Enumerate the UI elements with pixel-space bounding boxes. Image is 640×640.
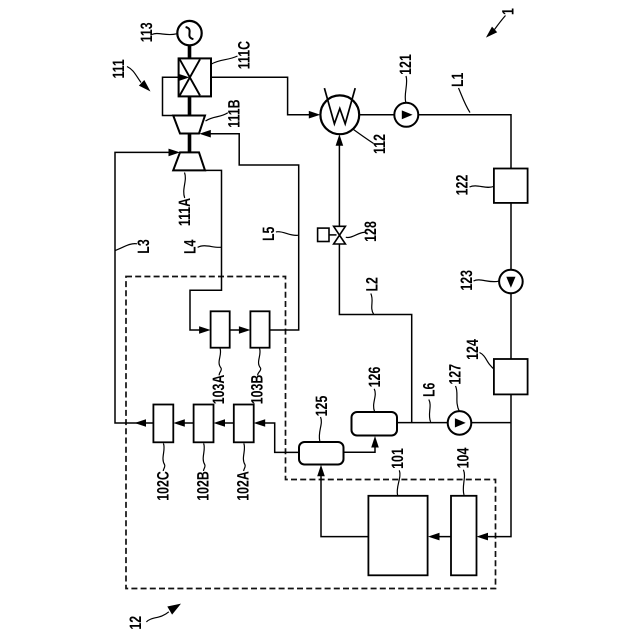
wire L1: 112 through pump 121 down right rail to 104 (359, 115, 511, 537)
turbine 111C (179, 58, 211, 96)
svg-text:102B: 102B (195, 471, 213, 501)
wire L4: 111A out down to 103A (190, 170, 222, 330)
wire L2: valve 128 down and over to L6 (339, 244, 411, 423)
box 104 (451, 496, 477, 576)
pump 127 (448, 411, 472, 435)
wire 102A to 102B (218, 422, 234, 424)
wire 104 to 101 (432, 536, 451, 538)
svg-text:102A: 102A (235, 471, 253, 501)
box 122 (494, 169, 528, 203)
box 103A (211, 311, 230, 347)
svg-text:103B: 103B (249, 375, 267, 405)
wire shaft 111B to 111A (188, 133, 192, 153)
box 102B (194, 405, 214, 443)
svg-text:L6: L6 (420, 383, 438, 397)
arrow into 111B (199, 130, 211, 138)
wire L3: 102C out, left and up to 111A (115, 152, 176, 423)
box 103B (250, 311, 269, 347)
valve 128 (334, 226, 346, 235)
wire 111B top to 111C inlet (163, 77, 187, 115)
wire shaft 111C to 111B (188, 96, 192, 116)
compressor 111B (173, 116, 205, 134)
svg-text:101: 101 (389, 448, 407, 469)
wire 125 to 102A (258, 423, 299, 452)
svg-text:125: 125 (313, 396, 331, 417)
wire 111C outlet to 112 (211, 77, 310, 114)
tank 125 (299, 442, 344, 465)
generator 113 (177, 21, 201, 45)
svg-text:L3: L3 (135, 239, 153, 253)
svg-text:L4: L4 (181, 239, 199, 254)
arrow into 102C (173, 419, 185, 427)
svg-text:113: 113 (138, 22, 156, 42)
arrow on L3 (135, 419, 147, 427)
arrow into 101 (428, 533, 440, 541)
svg-text:103A: 103A (210, 375, 228, 405)
svg-text:104: 104 (455, 447, 473, 468)
wire 102B to 102C (178, 422, 194, 424)
wire valve 128 up to 112 (338, 144, 340, 227)
svg-text:1: 1 (500, 8, 518, 15)
svg-text:127: 127 (447, 364, 465, 385)
svg-text:102C: 102C (154, 471, 172, 501)
box 102A (234, 405, 254, 443)
arrow into 111A (169, 149, 181, 157)
wire 125 to 126 (344, 440, 376, 452)
valve actuator 128 (318, 228, 329, 241)
pump 123 (499, 270, 523, 294)
arrow into 104 (477, 533, 489, 541)
compressor 111A (173, 152, 205, 170)
box 102C (153, 405, 173, 443)
arrow into 102A (254, 419, 266, 427)
arrow into 125 (317, 465, 325, 477)
svg-text:L2: L2 (363, 277, 381, 291)
dashed enclosure 12 (126, 277, 496, 589)
arrow into 102B (214, 419, 226, 427)
svg-text:128: 128 (362, 221, 380, 242)
arrow into 126 (371, 436, 379, 448)
arrow into cooler 112 (309, 111, 321, 119)
svg-text:121: 121 (397, 54, 415, 75)
box 124 (494, 359, 528, 394)
box 101 (368, 496, 427, 576)
wire L5: 103B up to 111B inlet (204, 134, 299, 330)
tank 126 (352, 412, 398, 436)
svg-text:L5: L5 (260, 227, 278, 241)
svg-text:126: 126 (366, 367, 384, 388)
svg-text:111: 111 (110, 59, 128, 78)
svg-text:L1: L1 (449, 73, 467, 87)
svg-text:123: 123 (458, 270, 476, 291)
svg-text:111B: 111B (226, 99, 244, 127)
wire 101 to 125 (321, 468, 368, 537)
arrow into 103B (239, 326, 251, 334)
wire 103A to 103B (230, 329, 246, 331)
svg-text:124: 124 (464, 339, 482, 360)
arrow into 112 bottom (336, 134, 344, 146)
svg-text:122: 122 (454, 175, 472, 196)
cooler 112 (320, 95, 359, 134)
svg-text:111C: 111C (235, 41, 253, 69)
wire shaft 113 to 111C (188, 45, 192, 59)
svg-text:112: 112 (371, 134, 389, 154)
svg-text:12: 12 (127, 616, 145, 630)
arrow into 103A (199, 326, 211, 334)
wire L6: 126 through pump 127 to right rail (397, 422, 511, 424)
svg-text:111A: 111A (176, 198, 194, 226)
pump 121 (394, 103, 418, 127)
